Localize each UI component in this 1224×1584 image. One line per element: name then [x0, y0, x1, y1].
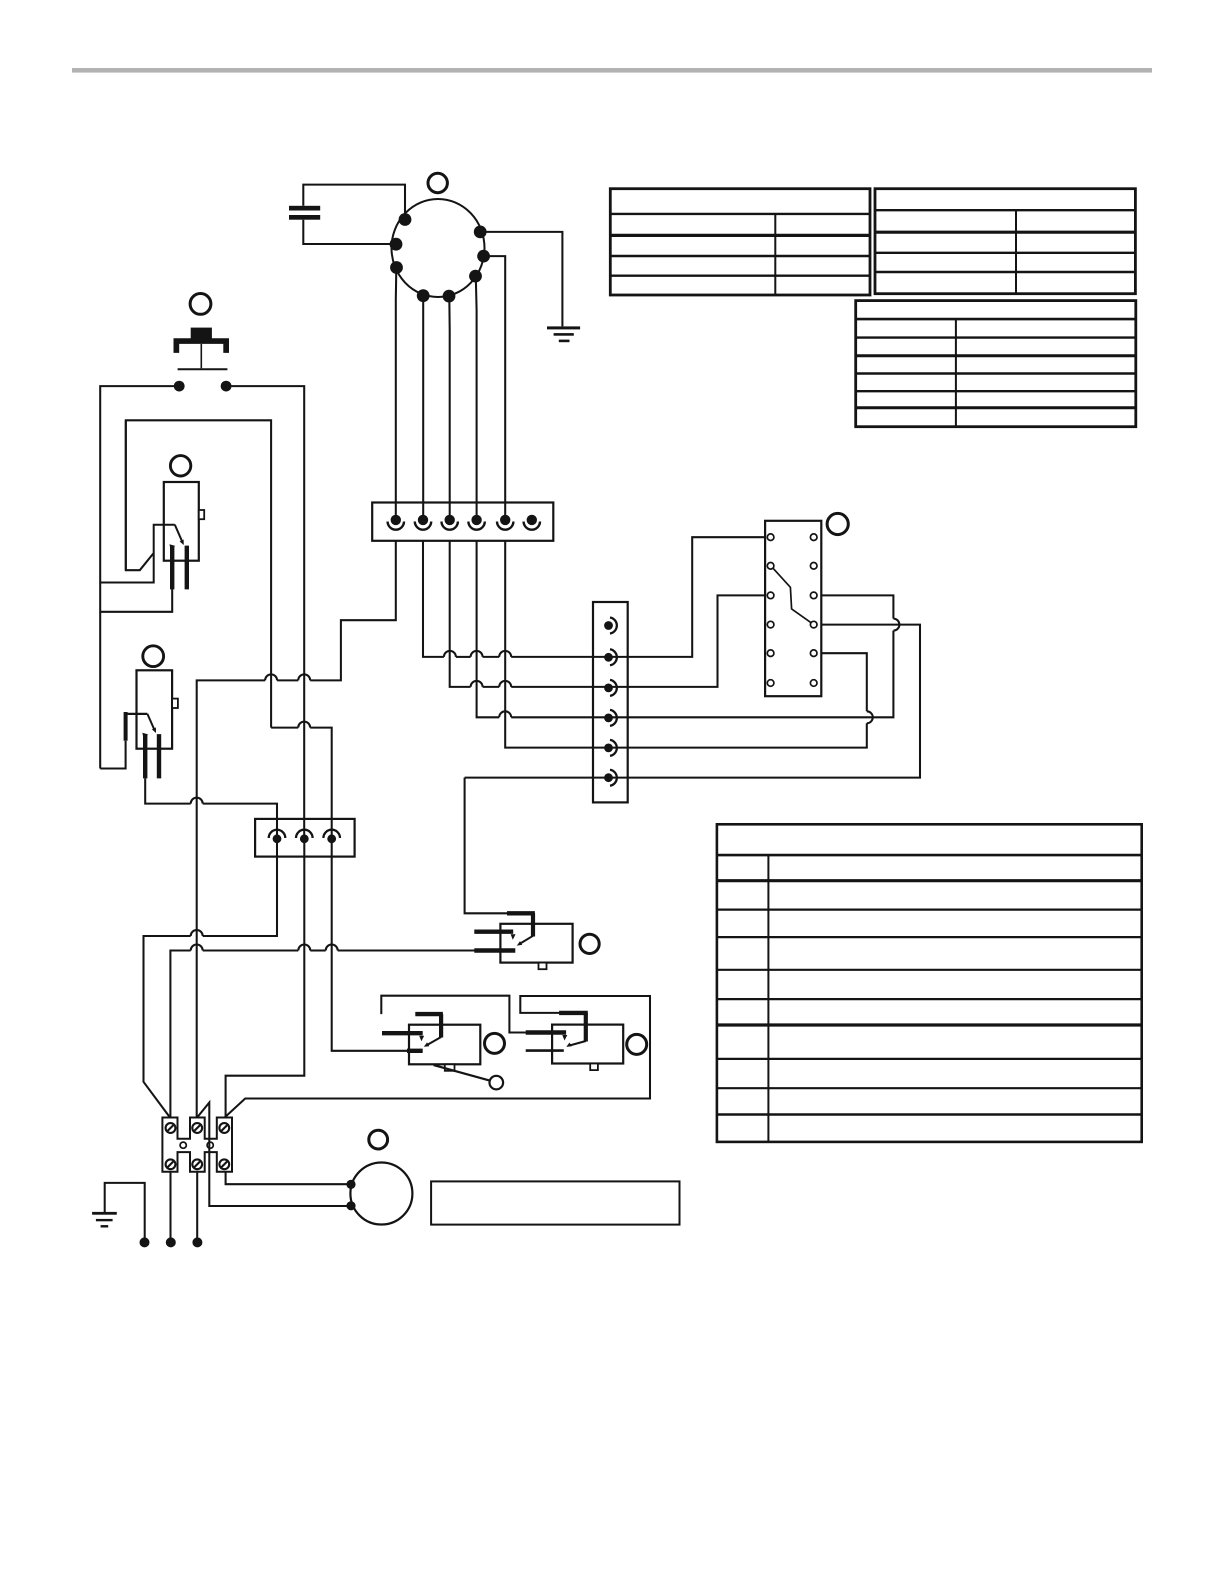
switch SW2 actuator notch [172, 699, 178, 708]
wire terminal strip T2 to power block screw 3 [226, 839, 305, 1118]
switch SW4 lever [434, 1065, 491, 1081]
switch SW4 lower contact stub [407, 1049, 423, 1053]
switch SW3 actuator notch [539, 963, 547, 970]
switch SW1 actuator lever [126, 420, 154, 570]
switch SW3 blade [520, 936, 533, 944]
wire terminal board T5 to relay pin R5 [505, 541, 873, 748]
door switch stem [200, 344, 202, 368]
wire power block screw 3 to pump upper terminal [226, 1172, 347, 1185]
switch SW2 left leg [143, 734, 147, 778]
wire terminal board T2 to relay pin L1 [423, 537, 765, 657]
table: component legend (bottom right, empty cells) [717, 824, 1142, 1142]
wire motor terminal 5 to terminal board [448, 296, 450, 520]
door switch movable contact bar [178, 368, 228, 370]
switch SW4 body [409, 1025, 480, 1065]
capacitor C1 [289, 206, 320, 220]
switch SW4 upper contact stub [382, 1031, 423, 1035]
wire motor terminal 8 to chassis ground [480, 232, 562, 327]
wire capacitor bottom to motor terminal 2 [303, 220, 396, 244]
terminal strip TS1 box [255, 819, 355, 857]
power block PB1 outline [162, 1118, 232, 1172]
relay K1 blade [773, 568, 811, 623]
door switch contact dots [174, 381, 232, 392]
motor M1 body [392, 199, 485, 297]
motor M1 terminal dots [390, 213, 490, 302]
motor M1 label circle [428, 173, 447, 192]
ground symbol (power) [92, 1212, 117, 1228]
switch SW1 left leg [170, 546, 174, 590]
switch SW5 blade [570, 1041, 586, 1045]
switch SW2 right leg [157, 734, 161, 778]
switch SW4 blade [428, 1037, 442, 1045]
wire connector strip T6 to relay pin R4 and to switch SW3 [465, 625, 920, 914]
relay K1 label circle [827, 513, 848, 534]
switch SW2 blade [147, 714, 154, 730]
table: wire color code (right, empty cells) [856, 301, 1136, 427]
switch SW2 label circle [143, 646, 164, 667]
wire switch SW1 output to left bus [100, 588, 172, 612]
switch SW2 contact marker [142, 733, 148, 738]
relay K1 body [765, 521, 821, 696]
switch SW4 blade arrowhead [424, 1042, 430, 1046]
switch SW3 feed stub [507, 913, 535, 936]
switch SW4 actuator notch [445, 1064, 455, 1071]
switch SW5 upper contact stub [526, 1030, 566, 1034]
door switch label circle [190, 294, 211, 315]
wire motor terminal 7 to terminal board [484, 256, 506, 520]
switch SW1 blade [175, 525, 183, 543]
switch SW2 blade arrowhead [152, 727, 156, 733]
callout rectangle (empty label box) [431, 1181, 679, 1224]
line lead dot 1 (ground wire) [140, 1237, 150, 1247]
table: motor specs (top left, empty cells) [610, 189, 870, 295]
door switch button cap [191, 328, 212, 339]
switch SW4 lever float circle [490, 1076, 504, 1090]
ground symbol (motor) [547, 326, 580, 342]
switch SW3 blade arrowhead [517, 941, 522, 946]
pump body [350, 1163, 412, 1225]
wire link switch SW4 blade to switch SW5 upper contact [381, 996, 527, 1033]
pump label circle [369, 1130, 388, 1149]
switch SW5 blade arrowhead [566, 1043, 571, 1047]
switch SW1 blade arrowhead [180, 540, 184, 546]
terminal board TB1 terminals [388, 515, 540, 530]
wire capacitor top to motor terminal 1 [303, 185, 405, 218]
switch SW5 feed stub [559, 1013, 588, 1042]
switch SW2 blade horizontal [125, 713, 148, 715]
terminal board TB1 box [372, 503, 553, 541]
switch SW1 label circle [170, 456, 190, 476]
door switch bracket [174, 338, 230, 353]
wire terminal strip T3 to switch SW4 lower contact [332, 839, 407, 1051]
wire terminal board T1 to bottom bus (left) [197, 541, 396, 1118]
switch SW1 right leg [185, 546, 189, 590]
top horizontal rule [72, 68, 1152, 73]
wire motor terminal 6 to terminal board [475, 277, 478, 520]
pump terminal dots [346, 1180, 355, 1211]
switch SW5 body [552, 1025, 623, 1064]
line lead dot 3 [192, 1237, 202, 1247]
switch SW1 actuator notch [199, 510, 204, 519]
wire inner loop (SW1 lever to strip terminal 3) [126, 420, 332, 839]
wire motor terminal 3 to terminal board [395, 268, 398, 520]
table: ratings (top right, empty cells) [875, 189, 1135, 294]
switch SW4 feed stub [415, 1014, 443, 1037]
switch SW1 body [164, 482, 199, 561]
relay K1 pins [767, 534, 817, 686]
switch SW2 body [137, 670, 173, 748]
line lead dot 2 [166, 1237, 176, 1247]
wire ground lead [105, 1183, 145, 1240]
switch SW2 blade feed [124, 712, 128, 741]
wire terminal board T3 to relay pin L3 [450, 541, 765, 687]
power block PB1 center holes [180, 1142, 213, 1148]
switch SW1 contact marker [170, 544, 176, 549]
power block PB1 screws [166, 1123, 230, 1169]
wire left bus to switch SW2 blade [100, 741, 125, 769]
switch SW4 contact marker [419, 1036, 424, 1042]
wire motor terminal 4 to terminal board [422, 296, 424, 520]
switch SW5 lower contact stub [526, 1049, 564, 1052]
wire power block screw 1 to switch SW3 lower contact [170, 945, 476, 1118]
wire power block screw 2 to line lead [196, 1172, 198, 1240]
wire switch SW2 output to connector strip [145, 778, 277, 838]
terminal strip TS1 terminals [269, 830, 340, 843]
switch SW3 upper contact stub [474, 930, 513, 934]
wire door switch right contact down to strip [231, 386, 304, 839]
switch SW5 contact marker [562, 1035, 567, 1041]
wire branch to switch SW1 blade [100, 525, 175, 583]
switch SW3 label circle [580, 934, 599, 953]
wire terminal strip T1 to power block screw 1 [144, 839, 278, 1118]
connector strip CS1 box [593, 602, 628, 802]
switch SW3 body [500, 924, 572, 963]
switch SW4 label circle [485, 1033, 505, 1053]
wire power block screw 1 to line lead [169, 1172, 171, 1240]
connector strip CS1 terminals [604, 618, 617, 786]
wire pass-through (screw 2 to pump lower terminal) [198, 1103, 348, 1207]
wire enclosure: power block screw 3 to switch SW5 blade [225, 996, 650, 1118]
switch SW5 actuator notch [590, 1064, 598, 1071]
switch SW5 label circle [627, 1034, 647, 1054]
switch SW3 contact marker [511, 934, 516, 940]
switch SW3 lower contact stub [474, 948, 515, 952]
wire terminal board T4 to relay pin R3 [477, 541, 900, 718]
wire door switch left contact to left bus [100, 386, 174, 768]
